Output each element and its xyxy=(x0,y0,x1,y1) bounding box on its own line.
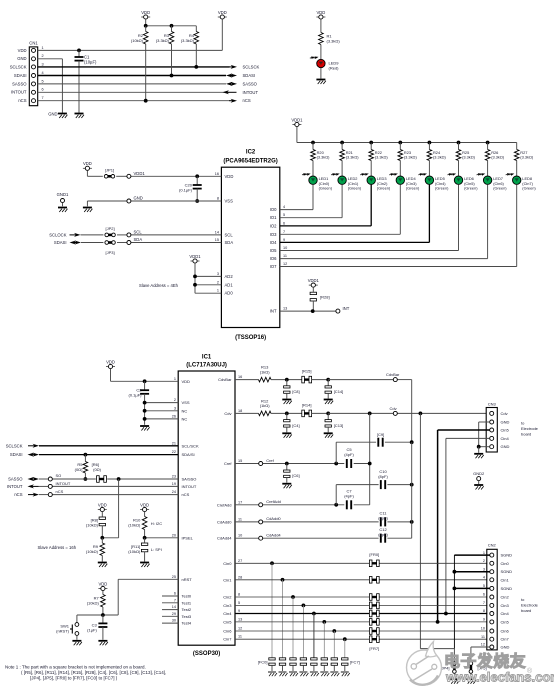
capacitor C11 (8pF) xyxy=(378,511,388,527)
svg-text:21: 21 xyxy=(172,441,176,445)
svg-text:Cin3: Cin3 xyxy=(223,603,232,608)
node nRST junction xyxy=(101,613,105,617)
svg-text:SCLSCK: SCLSCK xyxy=(6,443,23,448)
capacitor [FC4] xyxy=(311,614,317,672)
svg-text:VDD1: VDD1 xyxy=(291,117,303,122)
node R4/SCLSCK xyxy=(194,65,198,69)
svg-text:IO1: IO1 xyxy=(270,215,277,220)
svg-text:8: 8 xyxy=(483,609,485,613)
svg-text:VDD: VDD xyxy=(182,379,191,384)
wire CdAdd0 row xyxy=(235,521,412,523)
svg-text:NC: NC xyxy=(182,408,188,413)
ground under [FC5] xyxy=(320,672,329,676)
node SO terminal xyxy=(48,473,61,481)
svg-text:SASSO: SASSO xyxy=(8,477,23,482)
svg-text:board: board xyxy=(521,608,531,613)
wire Cin4 net xyxy=(235,613,487,615)
svg-text:SO: SO xyxy=(56,473,62,478)
wire Cdv to CN3 xyxy=(328,412,486,414)
node Cin6 filter tap xyxy=(332,629,336,633)
svg-text:(8pF): (8pF) xyxy=(378,516,388,521)
node Cref terminal xyxy=(259,458,275,466)
resistor [FR4] xyxy=(369,610,379,617)
node AD2 xyxy=(193,275,197,279)
wire nCS net top xyxy=(38,100,230,102)
svg-text:Test2: Test2 xyxy=(182,607,192,612)
ground under [JP4] xyxy=(450,679,460,684)
svg-text:[JP3]: [JP3] xyxy=(106,250,115,255)
svg-text:Test4: Test4 xyxy=(182,621,192,626)
svg-text:Cin2: Cin2 xyxy=(223,595,232,600)
node NC3 xyxy=(143,409,147,413)
capacitor [C9] xyxy=(377,432,384,447)
node Cin0 filter tap xyxy=(270,561,274,565)
wire LED6 to IO5 xyxy=(280,185,459,251)
svg-text:IC1: IC1 xyxy=(202,355,212,361)
svg-text:CrefAdd: CrefAdd xyxy=(217,502,232,507)
wire GND net (CN1 pin2) xyxy=(38,59,63,113)
svg-text:SASSO: SASSO xyxy=(12,81,27,86)
svg-text:Cref: Cref xyxy=(266,458,274,463)
svg-text:(TSSOP16): (TSSOP16) xyxy=(235,335,266,341)
svg-text:Test0: Test0 xyxy=(182,594,192,599)
svg-text:IO5: IO5 xyxy=(270,248,277,253)
node NC26 xyxy=(143,417,147,421)
svg-text:(Green): (Green) xyxy=(522,186,536,191)
svg-text:SDASI: SDASI xyxy=(14,73,27,78)
svg-text:Cin0: Cin0 xyxy=(501,561,510,566)
svg-text:20: 20 xyxy=(172,533,176,537)
svg-text:CdAdd4: CdAdd4 xyxy=(266,533,281,538)
svg-text:IO2: IO2 xyxy=(270,223,277,228)
ground under [C14] xyxy=(324,400,334,405)
svg-text:2: 2 xyxy=(483,559,485,563)
svg-text:CdvBar: CdvBar xyxy=(218,377,232,382)
capacitor [FC7] xyxy=(342,639,348,671)
svg-text:IO3: IO3 xyxy=(270,232,277,237)
svg-text:Slave Address = 4Eh: Slave Address = 4Eh xyxy=(139,283,179,288)
power VDD (pull-up rail) xyxy=(141,10,150,26)
wire SGND pin5 xyxy=(454,587,489,589)
power VDD (R7) xyxy=(98,581,107,594)
node SDA terminal xyxy=(127,237,142,245)
svg-text:(10kΩ): (10kΩ) xyxy=(86,549,99,554)
svg-text:SDASI: SDASI xyxy=(10,452,23,457)
svg-text:10: 10 xyxy=(481,627,485,631)
svg-text:12: 12 xyxy=(481,643,485,647)
resistor R12 (1k) xyxy=(235,398,302,415)
node SCL terminal xyxy=(127,229,142,237)
power VDD (R10 pull-up) xyxy=(140,502,149,516)
node nCS terminal xyxy=(48,489,63,497)
svg-text:H: I2C: H: I2C xyxy=(151,521,162,526)
svg-text:3: 3 xyxy=(42,62,44,66)
svg-text:26: 26 xyxy=(172,414,176,418)
svg-text:7: 7 xyxy=(483,601,485,605)
wire VDD1 to IC2 pin16 xyxy=(87,175,221,177)
svg-text:nCS: nCS xyxy=(14,492,22,497)
svg-text:VDD: VDD xyxy=(18,48,27,53)
svg-text:Cin3: Cin3 xyxy=(501,603,510,608)
svg-text:10: 10 xyxy=(238,534,242,538)
svg-text:Electrode: Electrode xyxy=(521,426,539,431)
node C20 bottom xyxy=(195,199,199,203)
op-amp IC1 LC717A30UJ box xyxy=(178,355,235,658)
svg-text:13: 13 xyxy=(283,307,287,311)
wire SDASI to IC1 xyxy=(10,452,178,457)
svg-text:IPSEL: IPSEL xyxy=(182,535,194,540)
svg-text:IO0: IO0 xyxy=(270,207,277,212)
svg-text:(0.1µF): (0.1µF) xyxy=(129,393,143,398)
svg-text:4: 4 xyxy=(483,576,485,580)
node rail LED6 xyxy=(457,141,461,145)
ground under [FC3] xyxy=(299,672,308,676)
node INTOUT terminal xyxy=(48,481,71,489)
ground under CN3 xyxy=(474,447,484,459)
svg-text:9: 9 xyxy=(283,238,285,242)
node INT junction xyxy=(311,309,315,313)
capacitor [C8] xyxy=(284,380,300,399)
node rail LED3 xyxy=(369,141,373,145)
ground under [FC7] xyxy=(341,672,350,676)
svg-text:(10kΩ): (10kΩ) xyxy=(128,549,141,554)
svg-text:Cin2: Cin2 xyxy=(501,595,510,600)
wire LED5 to IO4 xyxy=(280,185,430,243)
wire Cin2 net xyxy=(235,596,487,598)
svg-text:SDASI: SDASI xyxy=(54,240,67,245)
node CrefAdd series xyxy=(334,503,338,507)
wire CN3 GND pin5 xyxy=(479,446,490,448)
svg-text:VDD1: VDD1 xyxy=(308,278,320,283)
svg-text:Cin1: Cin1 xyxy=(501,577,510,582)
wire [C9] branch xyxy=(336,442,412,463)
ground under SW1 xyxy=(72,641,82,646)
wire Cin1 net xyxy=(235,579,487,581)
node Cin3 filter tap xyxy=(302,604,306,608)
svg-text:[JP2]: [JP2] xyxy=(106,226,115,231)
node CdvBar net C9 xyxy=(410,440,414,444)
svg-text:CdAdd0: CdAdd0 xyxy=(217,519,232,524)
wire IPSEL xyxy=(145,537,179,539)
resistor [R14] xyxy=(302,402,328,416)
resistor [R28] INT pull-up xyxy=(310,292,329,311)
node Cin1 filter tap xyxy=(281,578,285,582)
svg-text:[R28]: [R28] xyxy=(320,295,330,300)
svg-text:7: 7 xyxy=(174,598,176,602)
svg-text:VDD: VDD xyxy=(141,10,150,15)
svg-text:[FR0]: [FR0] xyxy=(369,552,379,557)
wire C10 branch xyxy=(336,485,412,505)
wire VSS to GND xyxy=(87,201,221,206)
watermark text elecfans xyxy=(444,652,554,685)
node R2/nCS xyxy=(144,99,148,103)
svg-text:SDA: SDA xyxy=(134,237,143,242)
svg-text:(10kΩ): (10kΩ) xyxy=(86,523,99,528)
node address divider xyxy=(100,536,104,540)
node Cin4 filter tap xyxy=(312,612,316,616)
svg-text:nCS: nCS xyxy=(18,98,26,103)
svg-text:VDD: VDD xyxy=(98,581,107,586)
svg-text:SDA/SI: SDA/SI xyxy=(182,452,195,457)
node R5/SASSO xyxy=(84,477,88,481)
node rail LED5 xyxy=(428,141,432,145)
wire Cin3 net xyxy=(235,604,487,606)
power VDD (IC2) xyxy=(83,161,92,176)
node Cdv terminal xyxy=(390,406,398,415)
svg-text:GND: GND xyxy=(501,420,510,425)
svg-text:CdAdd4: CdAdd4 xyxy=(217,536,232,541)
svg-text:GND: GND xyxy=(17,56,26,61)
svg-text:(3.3kΩ): (3.3kΩ) xyxy=(346,155,360,160)
LED5 (Cin4) Green xyxy=(418,172,449,190)
svg-text:[C4]: [C4] xyxy=(292,423,299,428)
wire CN3 Cin4 xyxy=(446,438,490,613)
resistor [FR0] xyxy=(369,560,379,567)
svg-text:28: 28 xyxy=(238,575,242,579)
capacitor [FC3] xyxy=(300,605,306,671)
svg-text:5: 5 xyxy=(42,79,44,83)
resistor [FR6] xyxy=(369,628,379,635)
wire VDD net (CN1 pin1) xyxy=(38,49,223,51)
ground under [C8] xyxy=(282,400,292,405)
wire SGND pin3 xyxy=(454,571,489,573)
node C2 top xyxy=(143,379,147,383)
wire INTOUT to IC1 xyxy=(7,484,178,489)
svg-text:nCS: nCS xyxy=(243,98,251,103)
wire VSS/NC rows xyxy=(145,403,179,419)
svg-text:SGND: SGND xyxy=(501,586,513,591)
node Cin7 filter tap xyxy=(343,637,347,641)
resistor R22 (3.3k) xyxy=(369,143,388,176)
wire SASSO to IC1 xyxy=(8,477,178,482)
node R3/SDASI xyxy=(170,74,174,78)
ground under [C13] xyxy=(324,433,334,438)
resistor R4 (3.3k) xyxy=(181,26,199,67)
svg-text:3: 3 xyxy=(217,272,219,276)
resistor [R11] (10k) L:SPI xyxy=(128,538,162,562)
svg-text:1: 1 xyxy=(174,377,176,381)
node AD1 xyxy=(193,283,197,287)
resistor R23 (3.3k) xyxy=(398,143,417,176)
svg-text:(3.3kΩ): (3.3kΩ) xyxy=(156,38,170,43)
jumper JP3 xyxy=(105,241,115,255)
node rail LED7 xyxy=(486,141,490,145)
resistor R9 (10k) xyxy=(86,538,105,562)
resistor [FR3] xyxy=(369,602,379,609)
svg-text:[C14]: [C14] xyxy=(334,389,344,394)
wire CdvBar net vertical xyxy=(411,442,413,522)
svg-text:VDD: VDD xyxy=(98,502,107,507)
svg-text:[FR7]: [FR7] xyxy=(369,646,379,651)
svg-text:[C6]: [C6] xyxy=(292,473,299,478)
switch SW1 (nRST) xyxy=(56,615,79,640)
svg-text:10: 10 xyxy=(283,246,287,250)
node CN3 GND xyxy=(477,445,481,449)
svg-text:15: 15 xyxy=(238,459,242,463)
svg-text:Cin5: Cin5 xyxy=(501,619,510,624)
svg-text:AD0: AD0 xyxy=(225,291,234,296)
LED2 (Cin1) Green xyxy=(331,172,362,190)
svg-text:3: 3 xyxy=(483,567,485,571)
text FC7 label xyxy=(350,660,360,665)
svg-text:7: 7 xyxy=(42,96,44,100)
node CN3 Cin5 join xyxy=(436,620,440,624)
capacitor [C14] xyxy=(325,380,343,399)
svg-text:VDD: VDD xyxy=(316,10,325,15)
svg-text:Cdv: Cdv xyxy=(501,411,508,416)
text slave address IC1 xyxy=(38,545,77,550)
svg-text:IO6: IO6 xyxy=(270,256,277,261)
resistor R10 (10k) H:I2C xyxy=(128,517,162,538)
text note 1 xyxy=(5,665,166,681)
svg-text:5: 5 xyxy=(238,601,240,605)
node VSS xyxy=(143,401,147,405)
wire nCS to IC1 xyxy=(14,492,178,497)
ground under [FC6] xyxy=(330,672,339,676)
wire INTOUT net top xyxy=(38,91,230,93)
LED1 (Cin0) Green xyxy=(302,172,333,190)
svg-text:nCS: nCS xyxy=(182,492,190,497)
power VDD1 (INT pull-up) xyxy=(308,278,320,292)
wire SDASI to IC2 SDA xyxy=(54,240,221,245)
svg-text:CdAdd0: CdAdd0 xyxy=(266,516,281,521)
svg-text:Electrode: Electrode xyxy=(521,603,539,608)
resistor R7 (10k) xyxy=(87,595,106,616)
svg-text:GND: GND xyxy=(48,112,57,117)
ground under [FC2] xyxy=(289,672,298,676)
power VDD (CN1 pin1) xyxy=(218,10,227,51)
wire LED4 to IO3 xyxy=(280,185,401,235)
wire CN2 GND pin12 xyxy=(471,647,490,662)
svg-text:VDD: VDD xyxy=(218,10,227,15)
svg-text:1: 1 xyxy=(483,551,485,555)
node INT terminal xyxy=(336,306,350,313)
svg-text:INTOUT: INTOUT xyxy=(182,484,197,489)
node Cin2 filter tap xyxy=(291,595,295,599)
resistor R24 (3.3k) xyxy=(427,143,446,176)
wire SDASI net top xyxy=(38,75,226,77)
resistor [R6] (0ohm) xyxy=(92,462,107,482)
svg-text:Slave Address = 16h: Slave Address = 16h xyxy=(38,545,77,550)
wire LED3 to IO2 xyxy=(280,185,371,226)
svg-text:Note 1 : The part with a squar: Note 1 : The part with a square bracket … xyxy=(5,665,146,670)
capacitor C5 (4pF) xyxy=(344,447,354,468)
node Cref C6 xyxy=(285,462,289,466)
IC1 pin labels xyxy=(172,375,242,642)
svg-text:(10kΩ): (10kΩ) xyxy=(128,523,141,528)
wire INT net xyxy=(280,310,336,312)
svg-text:(3.3kΩ): (3.3kΩ) xyxy=(404,155,418,160)
svg-text:(Red): (Red) xyxy=(329,66,340,71)
watermark logo elecfans xyxy=(407,642,442,686)
svg-text:11: 11 xyxy=(238,517,242,521)
wire LED7 to IO6 xyxy=(280,185,488,259)
node CdvBar terminal xyxy=(386,372,400,382)
svg-text:VDD: VDD xyxy=(83,161,92,166)
svg-text:INT: INT xyxy=(270,309,277,314)
resistor [FR7] xyxy=(369,636,379,643)
svg-text:(3.3kΩ): (3.3kΩ) xyxy=(520,155,534,160)
ground under C2 xyxy=(140,426,150,431)
svg-text:GND: GND xyxy=(501,444,510,449)
text FR7 label xyxy=(369,646,379,651)
node rail LED2 xyxy=(340,141,344,145)
svg-text:INTOUT: INTOUT xyxy=(7,484,23,489)
wire Cin5 net xyxy=(235,621,487,623)
power VDD (IC1) xyxy=(106,359,115,381)
svg-text:SA/SSO: SA/SSO xyxy=(182,477,197,482)
svg-text:8: 8 xyxy=(238,593,240,597)
resistor [FR5] xyxy=(369,619,379,626)
capacitor [C13] xyxy=(325,413,343,432)
wire SCLSCK to IC2 SCL xyxy=(49,232,221,237)
svg-text:GND: GND xyxy=(501,645,510,650)
wire LED1 to IO0 xyxy=(280,185,313,210)
resistor R21 (3.3k) xyxy=(340,143,359,176)
capacitor [FC1] xyxy=(279,580,285,671)
svg-text:(nRST): (nRST) xyxy=(56,629,70,634)
node CN3 Cin4 join xyxy=(444,612,448,616)
connector CN3 xyxy=(486,401,509,452)
node Cref series xyxy=(334,462,338,466)
svg-text:Cin5: Cin5 xyxy=(223,619,232,624)
svg-text:(Green): (Green) xyxy=(348,186,362,191)
ground under C1 xyxy=(75,114,85,119)
node CrefAdd terminal xyxy=(259,499,281,507)
svg-text:16: 16 xyxy=(215,172,219,176)
svg-text:Cin7: Cin7 xyxy=(501,637,510,642)
svg-text:(10kΩ): (10kΩ) xyxy=(131,38,144,43)
svg-text:5: 5 xyxy=(283,213,285,217)
svg-text:6: 6 xyxy=(283,221,285,225)
svg-text:www.elecfans.com: www.elecfans.com xyxy=(445,670,554,685)
svg-text:GND2: GND2 xyxy=(473,471,485,476)
svg-text:[R15]: [R15] xyxy=(302,369,312,374)
capacitor C7 (4pF) xyxy=(344,488,354,509)
ground under [JP5] xyxy=(466,679,476,684)
svg-text:(Green): (Green) xyxy=(435,186,449,191)
svg-text:27: 27 xyxy=(238,559,242,563)
wire Cin6 net xyxy=(235,630,487,632)
node C1/VDD junction xyxy=(77,49,81,53)
svg-text:(3.3kΩ): (3.3kΩ) xyxy=(317,155,331,160)
wire SGND pin1 xyxy=(454,555,489,649)
capacitor [FC2] xyxy=(290,597,296,671)
svg-text:[FC7]: [FC7] xyxy=(350,660,360,665)
svg-text:SDASI: SDASI xyxy=(243,73,256,78)
svg-text:4: 4 xyxy=(42,71,44,75)
svg-text:Cin6: Cin6 xyxy=(501,629,510,634)
svg-text:(10µF): (10µF) xyxy=(84,60,97,65)
text FR0 label xyxy=(369,552,379,557)
svg-text:INTOUT: INTOUT xyxy=(243,90,259,95)
ground under [R11] xyxy=(140,563,150,568)
svg-text:Cin1: Cin1 xyxy=(223,577,232,582)
node IPSEL xyxy=(143,536,147,540)
node CdAdd0 terminal xyxy=(259,516,282,524)
resistor [R8] (10k) xyxy=(86,517,106,538)
node Cin5 filter tap xyxy=(322,620,326,624)
svg-text:(Green): (Green) xyxy=(406,186,420,191)
node SGND pin3 xyxy=(453,570,457,574)
svg-text:SCL/SCK: SCL/SCK xyxy=(182,443,199,448)
wire Cdv sense vertical xyxy=(369,413,371,504)
svg-text:VDD: VDD xyxy=(106,359,115,364)
wire pull-up rail xyxy=(146,25,197,27)
node SGND pin5 xyxy=(453,587,457,591)
svg-text:nCS: nCS xyxy=(56,489,64,494)
wire LED rail xyxy=(297,142,517,144)
